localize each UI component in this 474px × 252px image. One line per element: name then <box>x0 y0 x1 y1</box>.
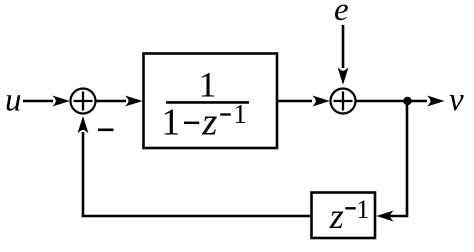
arrowhead into sum1 <box>52 96 69 107</box>
svg-text:u: u <box>5 83 22 119</box>
denominator minus <box>184 122 199 125</box>
arrowhead to v <box>427 96 444 107</box>
wire feedback up <box>82 132 85 217</box>
summing junction S1 <box>71 89 96 114</box>
svg-text:z: z <box>329 196 344 236</box>
summing junction S2 <box>331 89 356 114</box>
block z^-1 <box>312 193 376 239</box>
arrowhead into sum1 bottom <box>78 116 89 133</box>
arrowhead into block1 <box>125 96 142 107</box>
block 1/(1-z^-1) <box>144 54 278 149</box>
minus label <box>98 129 114 132</box>
wire u to sum1 <box>23 100 53 103</box>
wire sum1 to block1 <box>96 100 126 103</box>
svg-text:v: v <box>449 82 464 118</box>
svg-text:1: 1 <box>356 195 369 224</box>
wire e down to sum2 <box>342 25 345 68</box>
wire corner to z-block <box>390 215 408 218</box>
svg-text:1: 1 <box>199 65 217 105</box>
wire sum2 to v <box>356 100 428 103</box>
plus sign S1 <box>74 92 93 111</box>
svg-text:1: 1 <box>161 102 180 144</box>
wire z-block to feedback corner <box>82 215 311 218</box>
arrowhead into z-block <box>376 211 393 222</box>
svg-text:z: z <box>201 101 217 144</box>
fraction bar <box>166 101 249 104</box>
svg-text:e: e <box>334 0 349 28</box>
wire block1 to sum2 <box>277 100 312 103</box>
denominator superscript minus <box>220 113 231 115</box>
arrowhead into sum2 <box>312 96 329 107</box>
svg-text:1: 1 <box>233 99 247 129</box>
node dot <box>403 97 411 105</box>
z superscript minus <box>345 207 355 209</box>
plus sign S2 <box>334 92 353 111</box>
wire node down <box>406 101 409 216</box>
arrowhead into sum2 top <box>338 67 349 84</box>
